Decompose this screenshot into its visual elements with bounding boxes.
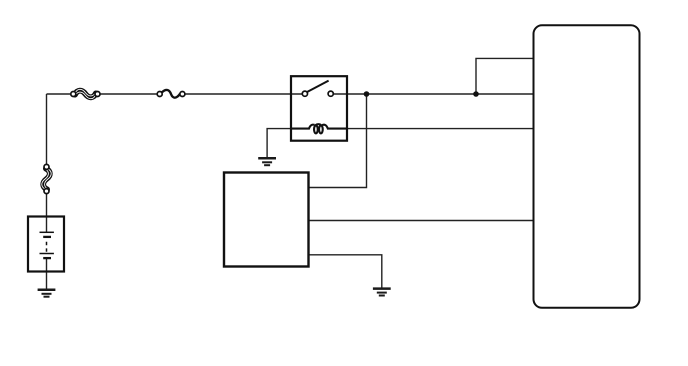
- junction B: [473, 91, 479, 97]
- wire: jog from junction B up and right into load box: [476, 58, 534, 94]
- wire: fuse to relay left contact: [185, 93, 304, 95]
- relay contact left: [302, 91, 307, 96]
- wire: left vertical drop from corner to battery: [46, 94, 48, 165]
- battery cell plate long 2: [40, 253, 54, 255]
- fusible link F3 on battery feed (vertical): [42, 164, 51, 193]
- wire: relay coil wire left to ground bend: [267, 129, 291, 158]
- wire: module middle pin to load box: [309, 220, 534, 222]
- load unit box (rounded): [534, 25, 640, 308]
- junction A: [364, 91, 370, 97]
- wire: main horizontal feed at y=94 from corner to fusible link: [47, 93, 71, 95]
- battery B1 box: [28, 217, 64, 272]
- battery cell plate long 1: [40, 231, 54, 233]
- relay coil L1: [291, 124, 347, 133]
- wire: relay right contact to load box: [333, 93, 534, 95]
- wire: vertical from junction A down to module: [309, 94, 367, 188]
- relay contact right: [328, 91, 333, 96]
- battery cell plate short 2: [43, 257, 51, 259]
- wire: battery negative to ground: [46, 258, 48, 289]
- fusible link F1 on main feed: [71, 89, 100, 98]
- module M1 box: [224, 173, 309, 267]
- ground G3 (battery): [38, 290, 56, 297]
- ground G2 (module): [373, 289, 391, 296]
- battery dashed link: [46, 242, 48, 252]
- wire: module bottom pin right then down to ground: [309, 255, 382, 288]
- battery cell plate short 1: [43, 236, 51, 238]
- wire: between fusible link and fuse: [100, 93, 157, 95]
- fuse F2 on main feed: [157, 90, 185, 98]
- relay switch blade: [307, 81, 328, 92]
- wire: relay coil wire right to load box: [347, 128, 534, 130]
- relay K1 box: [291, 76, 347, 141]
- ground G1 (relay coil): [258, 158, 276, 165]
